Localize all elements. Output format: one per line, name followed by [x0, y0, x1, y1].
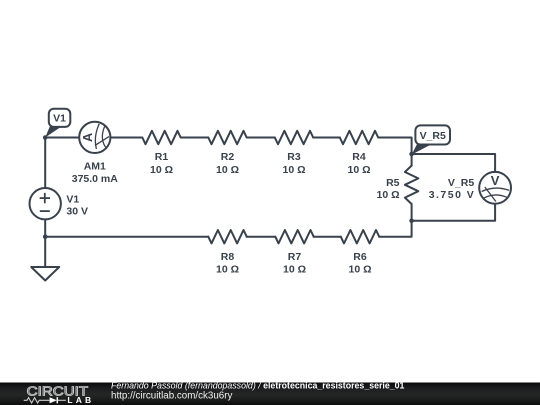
svg-text:V1: V1 [53, 113, 66, 125]
svg-text:R1: R1 [155, 151, 169, 163]
svg-text:R3: R3 [287, 151, 301, 163]
node C junction [409, 152, 414, 157]
svg-text:V_R5: V_R5 [448, 177, 474, 189]
svg-text:30 V: 30 V [66, 206, 88, 218]
wire R1 to R2 [181, 137, 209, 139]
wire ammeter to R1 [110, 137, 142, 139]
voltage source V1 [30, 188, 89, 219]
svg-text:R5: R5 [386, 177, 400, 189]
svg-text:R2: R2 [221, 151, 235, 163]
wire top-left vertical (V1 top to top rail) [44, 138, 46, 188]
svg-text:R6: R6 [353, 251, 367, 263]
wire R3 to R4 [313, 137, 340, 139]
wire ground stem [44, 237, 46, 267]
node A junction [43, 135, 48, 140]
wire junction to voltmeter top [412, 154, 496, 172]
resistor R2 [208, 131, 246, 176]
wire voltmeter bottom to bottom junction [412, 204, 496, 221]
node V1 label [45, 109, 70, 138]
resistor R5 [376, 166, 418, 204]
svg-text:AM1: AM1 [84, 161, 106, 173]
ground [31, 267, 59, 281]
resistor R6 [341, 230, 379, 276]
resistor R1 [142, 131, 180, 176]
logo resistor glyph [24, 398, 50, 403]
svg-text:Fernando Passold (fernandopass: Fernando Passold (fernandopassold) / ele… [111, 380, 405, 390]
svg-text:10 Ω: 10 Ω [216, 164, 239, 176]
svg-text:10 Ω: 10 Ω [150, 164, 173, 176]
svg-text:10 Ω: 10 Ω [348, 264, 371, 276]
svg-text:10 Ω: 10 Ω [216, 264, 239, 276]
svg-text:10 Ω: 10 Ω [347, 164, 370, 176]
resistor R8 [208, 230, 246, 276]
svg-text:V1: V1 [66, 193, 79, 205]
svg-text:V: V [491, 173, 500, 188]
wire R4 to right corner [378, 138, 411, 166]
wire R5 bottom to bottom rail corner [379, 204, 411, 237]
svg-text:10 Ω: 10 Ω [282, 164, 305, 176]
node V_R5 label [412, 125, 450, 154]
resistor R4 [340, 131, 378, 176]
node D junction [409, 218, 414, 223]
resistor R7 [275, 230, 313, 276]
resistor R3 [275, 131, 313, 176]
svg-text:http://circuitlab.com/ck3u6ry: http://circuitlab.com/ck3u6ry [111, 390, 233, 401]
svg-text:10 Ω: 10 Ω [376, 189, 399, 201]
svg-text:R8: R8 [221, 251, 235, 263]
svg-text:R7: R7 [288, 251, 302, 263]
svg-text:A: A [80, 132, 95, 142]
svg-text:3.750 V: 3.750 V [429, 189, 474, 201]
svg-text:375.0 mA: 375.0 mA [72, 173, 119, 185]
ammeter AM1 [72, 122, 119, 185]
wire R7 to R8 [247, 236, 276, 238]
svg-text:10 Ω: 10 Ω [283, 264, 306, 276]
node B junction [43, 234, 48, 239]
wire V1 bottom to bottom junction [44, 220, 46, 237]
wire top rail segment: junction to ammeter [45, 137, 79, 139]
svg-text:R4: R4 [352, 151, 366, 163]
footer bar [0, 383, 540, 405]
svg-text:LAB: LAB [67, 395, 91, 405]
wire R6 to R7 [314, 236, 341, 238]
wire R2 to R3 [247, 137, 275, 139]
svg-text:V_R5: V_R5 [420, 130, 446, 142]
wire R8 to left rail [45, 236, 208, 238]
voltmeter V_R5 [429, 172, 511, 204]
logo diode glyph [50, 397, 57, 403]
